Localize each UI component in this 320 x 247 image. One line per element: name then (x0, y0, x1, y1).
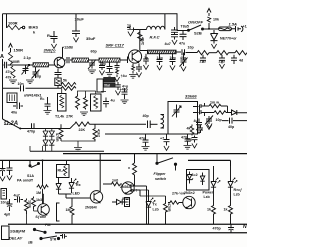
capacitor 10p (170, 54, 176, 65)
wire input line (10, 64, 34, 66)
arrow +12 up at junction (207, 9, 211, 29)
MOSFET symbol (193, 103, 205, 116)
inductor choke3 (235, 51, 247, 55)
wire mixer bottom rail (105, 133, 198, 135)
svg-text:2N3×2: 2N3×2 (184, 191, 195, 195)
svg-text:ßƒone: ßƒone (36, 215, 47, 219)
IF transformer T1 (58, 94, 67, 112)
svg-text:2N364Ɩ: 2N364Ɩ (85, 206, 97, 210)
svg-text:6=2: 6=2 (192, 173, 198, 177)
wire (229, 52, 236, 54)
wire drop from L1 (134, 154, 136, 163)
svg-text:DELAY: DELAY (9, 236, 23, 241)
capacitor 40u audio (7, 199, 13, 211)
svg-text:2.1p: 2.1p (24, 56, 32, 60)
resistor collector small (138, 32, 142, 41)
svg-text:Flipper: Flipper (154, 172, 167, 176)
capacitor 470p rail (228, 224, 234, 233)
svg-text:uW4148x1: uW4148x1 (24, 94, 42, 98)
junction on L2 (42, 159, 44, 161)
svg-text:Rn: Rn (47, 33, 52, 38)
junction dot (19, 128, 21, 130)
wire to mixer coil (150, 123, 157, 125)
svg-text:R.F.C: R.F.C (150, 35, 160, 40)
resistor 1k flipper (133, 163, 137, 181)
capacitor 4u IF (103, 98, 109, 108)
capacitor 10p to ground (99, 62, 105, 70)
wire rail right drop (177, 14, 188, 31)
capacitor 40p series mixer in (148, 121, 151, 129)
ground (143, 65, 148, 70)
wire (209, 52, 217, 54)
svg-text:10p: 10p (188, 46, 195, 50)
svg-text:35uF: 35uF (86, 36, 96, 41)
transistor Q3 (90, 191, 102, 203)
svg-text:1k: 1k (207, 208, 211, 212)
trimmer 60p interstage (88, 60, 96, 70)
ground (114, 77, 119, 82)
wire left edge signal drop (2, 59, 4, 119)
wire diode box bottom (30, 150, 104, 152)
arrow up from 150R (9, 44, 13, 53)
wire Q3 collector up (99, 154, 101, 192)
ground divider (74, 148, 82, 152)
wire bias branch (6, 14, 9, 28)
inductor output tank bar (148, 50, 177, 54)
resistor 100R (bias) (7, 25, 21, 29)
svg-text:10p: 10p (216, 118, 223, 122)
wire flipper to zener box (175, 164, 177, 170)
inductor mixer coil vertical (161, 115, 165, 129)
inductor L1 tuned bar (33, 63, 49, 67)
svg-text:100k: 100k (28, 200, 32, 208)
inductor choke2 (217, 51, 229, 55)
svg-text:21u: 21u (200, 60, 206, 64)
wire to fuse (203, 28, 219, 30)
wire Q2 collector up (139, 30, 141, 51)
ground (184, 146, 192, 150)
wire relay bottom join (59, 194, 91, 198)
capacitor left edge 2 (7, 160, 13, 175)
capacitor 4d (231, 55, 237, 64)
svg-text:Xtal: Xtal (104, 84, 110, 88)
wire divider L1 (63, 153, 247, 155)
svg-text:10k: 10k (213, 18, 219, 22)
svg-text:100R: 100R (11, 60, 20, 64)
svg-text:+40p: +40p (120, 88, 129, 92)
ground (142, 147, 150, 151)
svg-text:4d: 4d (239, 59, 243, 63)
ground under 47k (9, 80, 17, 84)
svg-text:1.5A: 1.5A (229, 22, 238, 27)
ground small arrow (207, 124, 212, 129)
wire mixer out top (205, 105, 210, 107)
ground (106, 73, 114, 77)
capacitor 40p xtal (115, 82, 121, 90)
wire to Q2 base (120, 57, 128, 64)
svg-text:470R: 470R (55, 133, 59, 142)
crystal filter block (97, 77, 115, 92)
wire to Q1 base (49, 64, 55, 66)
wire IF row top links (62, 88, 106, 96)
switch S2B on/off (188, 25, 204, 31)
diode out arrow (232, 110, 248, 115)
svg-text:4k: 4k (187, 127, 191, 131)
svg-text:T8u5: T8u5 (181, 25, 189, 29)
resistor 1M emitter (70, 198, 74, 224)
svg-text:4µ0: 4µ0 (4, 213, 10, 217)
inductor L2 tuned bar (72, 58, 89, 62)
IF transformer T2 (91, 94, 102, 111)
ground 1n (128, 32, 133, 37)
svg-text:4u7: 4u7 (165, 42, 171, 46)
capacitor 47n bottom (143, 134, 149, 146)
ground (99, 71, 104, 76)
capacitor left edge 1 (0, 160, 6, 176)
resistor 470R vertical (164, 196, 168, 224)
svg-text:150R: 150R (14, 48, 24, 53)
resistor divider left (59, 124, 63, 141)
svg-text:47u: 47u (179, 42, 185, 46)
svg-text:Tx: Tx (153, 203, 157, 207)
wire divider bottoms (61, 141, 95, 147)
svg-text:4B/C: 4B/C (141, 37, 145, 46)
capacitor 22u (219, 55, 225, 64)
box right mic conn (125, 198, 130, 207)
svg-text:Lɛb: Lɛb (153, 208, 160, 212)
resistor divider right (93, 124, 97, 141)
svg-text:40p: 40p (228, 125, 235, 129)
ground (44, 111, 52, 115)
resistor vert 1 (76, 94, 80, 110)
svg-text:S²R: S²R (50, 238, 57, 242)
svg-text:R×ɛƒ: R×ɛƒ (234, 188, 242, 192)
terminal o BIAS (22, 26, 24, 28)
svg-text:1m w: 1m w (210, 101, 219, 105)
svg-text:22K: 22K (79, 128, 86, 132)
wire left edge drop from rail (2, 14, 4, 51)
ground under trimmers (26, 80, 34, 84)
resistor+cap leg (115, 62, 120, 77)
battery connector +12 (232, 26, 243, 32)
capacitor 1n collector (127, 26, 140, 32)
inductor L3 tuned bar (99, 58, 120, 62)
ground arrow cap2 (7, 176, 12, 181)
svg-text:S2B: S2B (194, 31, 202, 36)
capacitor 470p bottom (185, 134, 191, 145)
Q2 emitter network (132, 64, 143, 74)
svg-text:470p: 470p (213, 227, 222, 231)
capacitor mixer 4u left (196, 119, 202, 129)
Q1 emitter network (55, 69, 62, 89)
resistor 5k feedback (61, 83, 76, 91)
ground arrow cap1 (0, 177, 5, 182)
wire 470R top (140, 195, 166, 197)
svg-text:3Sk66: 3Sk66 (185, 94, 197, 99)
svg-text:40p: 40p (180, 56, 187, 60)
svg-text:FM.: FM. (45, 223, 51, 227)
capacitor input coupling (3, 62, 10, 68)
wire feedback line (3, 87, 62, 89)
svg-text:PA on/off: PA on/off (17, 179, 34, 183)
transistor Q5 (183, 196, 195, 208)
svg-text:Lɛb: Lɛb (204, 195, 211, 199)
svg-text:Rx: Rx (76, 183, 81, 187)
svg-text:14p: 14p (157, 56, 164, 60)
svg-text:10n: 10n (18, 82, 24, 86)
relay RLA box (57, 165, 70, 178)
svg-text:Power: Power (203, 191, 214, 195)
wire mid bus right (90, 123, 147, 125)
ground arrow xtal (115, 91, 120, 96)
wire Q6 verticals (27, 194, 44, 224)
svg-text:47k: 47k (6, 76, 12, 80)
resistor 22K on bus (75, 122, 90, 126)
wire relay top to L2 (66, 160, 68, 164)
svg-text:5k: 5k (63, 79, 67, 83)
svg-text:NE770+or: NE770+or (220, 37, 237, 41)
capacitor right small (198, 125, 203, 134)
resistor 27k to Q5 (168, 201, 183, 204)
zener 6.2 (187, 172, 193, 184)
box mic connector (1, 189, 7, 200)
resistor 4k3 right (190, 125, 193, 136)
wire divider L2 right (188, 159, 231, 161)
capacitor 4u7 decoupling (171, 27, 178, 40)
ground under trimmer (88, 70, 96, 74)
ground arrow under diode (211, 44, 216, 49)
trimmer capacitor 2.1p (22, 65, 30, 75)
box SSB delay left (2, 226, 10, 240)
capacitor 30p low (192, 136, 198, 143)
transistor Q4 (122, 181, 135, 195)
capacitor 14p (157, 54, 163, 65)
ground mixer caps (196, 129, 201, 134)
capacitor interstage 2 (107, 62, 113, 72)
fuse 1.5A (219, 27, 232, 31)
svg-text:10p: 10p (100, 62, 107, 66)
svg-text:†4u: †4u (121, 74, 127, 78)
ground 30p (192, 144, 197, 149)
svg-text:47n: 47n (6, 70, 12, 74)
wire box bottom drop left (30, 146, 43, 151)
resistor 2 mixer (214, 111, 226, 115)
svg-text:1k: 1k (224, 208, 228, 212)
trimmer inside mixer (172, 105, 181, 118)
svg-text:+7: +7 (160, 137, 164, 141)
capacitor 47u at switch left (180, 31, 187, 41)
wire divider L2 (0, 159, 121, 161)
resistor 1mW (209, 104, 221, 108)
wire down from junction (42, 160, 44, 183)
junction dot (208, 28, 210, 30)
ground (181, 67, 186, 72)
capacitor bottom mid (60, 234, 67, 239)
svg-text:30p: 30p (186, 138, 193, 142)
svg-text:41k2: 41k2 (97, 129, 101, 137)
trimmer 40p output (180, 53, 188, 67)
resistor 1k power led (212, 204, 216, 224)
svg-text:SRF C117: SRF C117 (106, 43, 125, 48)
wire rail bottom 2 (55, 232, 247, 234)
diode under relay (56, 178, 61, 195)
svg-text:LED: LED (73, 192, 81, 196)
svg-text:2n†: 2n† (131, 189, 137, 193)
resistor base feed (37, 183, 49, 204)
trimmer 60p (32, 67, 40, 79)
inductor RFC coil (140, 14, 165, 30)
svg-text:4u: 4u (194, 119, 198, 123)
svg-text:22u: 22u (219, 60, 225, 64)
svg-text:40u: 40u (11, 111, 17, 115)
wire top rail (3, 13, 177, 15)
trimmer 45p mixer (205, 116, 213, 125)
ground (157, 66, 162, 71)
svg-text:T2,4k 27R: T2,4k 27R (55, 115, 73, 119)
wire collector to tank (140, 50, 147, 52)
svg-text:27k·½w: 27k·½w (172, 192, 185, 196)
wire rail bottom 1 (8, 223, 247, 225)
diode pair D2 (49, 129, 54, 152)
wire loop (221, 106, 228, 113)
transistor Q1 (54, 57, 65, 68)
svg-text:470R: 470R (167, 203, 171, 212)
wire mid bus left (20, 124, 75, 128)
svg-text:≤B: ≤B (28, 241, 33, 245)
capacitor Rn top (decoupling) (51, 31, 58, 43)
svg-text:1M: 1M (66, 208, 71, 212)
switch S1A (29, 160, 40, 167)
switch flipper (156, 154, 177, 166)
capacitor 1p (143, 54, 149, 65)
capacitor 10uF branch from rail (72, 14, 80, 37)
switch S2 bottom (33, 228, 59, 239)
wire mixer to out arrow (205, 112, 232, 114)
ground (170, 66, 175, 71)
LED power (211, 166, 220, 204)
coil can L4 (7, 93, 17, 103)
LED Rx (69, 178, 78, 193)
inductor choke1 (197, 51, 209, 55)
resistor 150R vertical (8, 52, 12, 64)
svg-text:60p: 60p (35, 75, 42, 79)
svg-text:4u: 4u (111, 99, 115, 103)
wire interstage (89, 59, 100, 61)
resistor 1k led2 (229, 204, 233, 224)
svg-text:Lɛb: Lɛb (234, 193, 241, 197)
capacitor 21u (200, 55, 206, 63)
svg-text:10uF: 10uF (75, 17, 85, 22)
capacitor 470p on bus (32, 123, 35, 128)
svg-text:40p: 40p (143, 114, 150, 118)
ground (164, 146, 169, 151)
resistor 47k to ground (11, 66, 15, 78)
diode horizontal mid (112, 199, 127, 204)
ground (121, 100, 129, 104)
diode in box (200, 173, 205, 186)
svg-text:x: x (128, 166, 130, 170)
capacitor out series 40p (222, 118, 247, 124)
capacitor to gnd mid (45, 97, 51, 110)
capacitor Q1 output coupling (65, 57, 72, 63)
svg-text:+12dB: +12dB (62, 46, 73, 50)
ground IF row (80, 112, 88, 116)
svg-text:470p: 470p (27, 130, 36, 134)
wire Q4 right links (131, 186, 147, 224)
svg-text:ON/OFF: ON/OFF (188, 20, 204, 25)
svg-text:60p: 60p (91, 50, 98, 54)
resistor 1k3 (32, 197, 36, 210)
diode pair D1 (43, 129, 48, 152)
svg-text:SSB|FM: SSB|FM (10, 229, 26, 234)
ground filter (219, 64, 224, 69)
svg-text:+12: +12 (243, 25, 248, 29)
ground Q2 emitter (129, 75, 137, 79)
resistor 10k to flipper (103, 182, 122, 186)
wire Tx led top (140, 190, 149, 196)
wire right drop to rail (230, 160, 232, 166)
svg-text:1M: 1M (36, 191, 41, 195)
svg-text:1k3: 1k3 (36, 198, 42, 202)
svg-text:47n: 47n (139, 137, 145, 141)
bracket connector (57, 203, 60, 221)
svg-text:3N6ƒo: 3N6ƒo (44, 48, 57, 53)
ground arrow under 10uF (73, 38, 78, 43)
LED right 2 (228, 166, 237, 204)
transistor Q6 BC (38, 204, 50, 216)
ground arrow under Rn cap (51, 44, 56, 49)
svg-text:S1A: S1A (27, 174, 34, 178)
svg-text:RLA: RLA (58, 169, 66, 173)
wire diagonal from A line (3, 119, 21, 129)
ground 4u7 (172, 40, 177, 45)
capacitor +40p (122, 89, 128, 100)
svg-text:4u7: 4u7 (14, 194, 20, 198)
transistor Q2 SRF C117 (128, 50, 141, 63)
svg-text:100R: 100R (8, 21, 18, 26)
svg-text:1n0: 1n0 (112, 179, 118, 183)
svg-text:N: N (243, 224, 247, 230)
resistor vert 2 (84, 96, 88, 110)
capacitor 10n series (21, 85, 24, 91)
diode NE770 protection (211, 30, 218, 44)
svg-text:switch: switch (155, 177, 167, 181)
svg-text:10p: 10p (170, 56, 177, 60)
wire Q1 collector up (62, 48, 64, 58)
resistor 100k vertical (25, 199, 29, 215)
capacitor 4u7 audio (14, 197, 23, 203)
svg-text:Rn: Rn (40, 97, 45, 101)
zener box (187, 170, 210, 191)
capacitor 47u electrolytic bottom (164, 134, 170, 146)
svg-text:1n: 1n (127, 24, 131, 28)
resistor 10k (supply) (207, 17, 210, 22)
capacitor 10p series out (176, 49, 197, 55)
capacitor 40u electrolytic (13, 103, 23, 110)
mixer box (168, 102, 198, 135)
LED Tx (146, 190, 155, 224)
